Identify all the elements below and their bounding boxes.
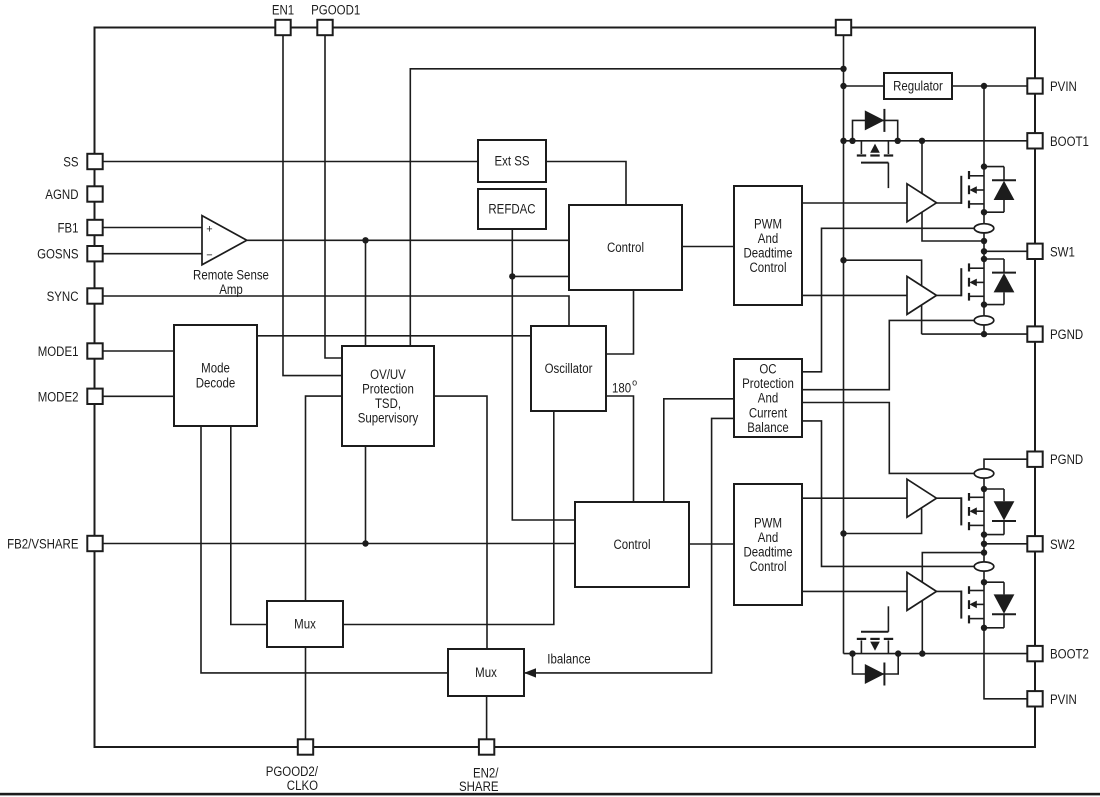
node BOOT1 boot-loop right [895,138,901,144]
pin PGND phase2 [1027,452,1042,467]
block OC Protection And Current Balance [734,359,802,437]
block PWM And Deadtime Control phase2 [734,484,802,605]
block Mux1 [267,601,343,647]
wire SYNC to oscillator [95,296,569,326]
node SW2 at spine [981,541,987,547]
wire Mode Decode to oscillator left [257,335,531,337]
wire BOOT1 down through HS1 driver to SW node [922,141,984,241]
wire top rail from OV/UV to VDD pin column [410,69,843,346]
svg-text:Oscillator: Oscillator [545,361,593,376]
wire MODE2 to Mode Decode [95,395,174,397]
outer IC boundary box [95,28,1036,748]
svg-text:Balance: Balance [747,420,789,435]
svg-text:PVIN: PVIN [1050,692,1077,707]
node amp/OVUV junction [362,237,368,243]
wire REFDAC down to Control1 left [512,229,569,276]
wire spine between SW1 nodes [983,212,985,259]
transistor Q1 body [983,167,985,213]
pin SW1 [1027,244,1042,259]
node BOOT1 boot-loop left [849,138,855,144]
current sense oval LS2 [974,469,994,478]
wire LS1 driver to gate [937,294,962,296]
wire spine HS2 drain to PVIN2 pin [984,628,1027,699]
node BOOT2 boot-loop right [895,650,901,656]
svg-text:PWM: PWM [754,515,782,530]
pin FB2/VSHARE [87,536,102,551]
wire amp output to Control1 [247,239,569,241]
gate driver LS1 [907,276,937,314]
pin PVIN phase2 [1027,691,1042,706]
wire PGOOD1 down to OV/UV [325,33,342,358]
svg-text:EN1: EN1 [272,3,294,18]
bootstrap loop [853,654,899,674]
body diode of Q2 [984,258,1004,260]
wire BP to LS1 driver rail [844,260,922,334]
svg-text:−: − [206,249,212,261]
node regulator/PVIN spine junction [981,83,987,89]
wire Control1 output to PWM1 [682,246,734,248]
node BOOT1 driver branch [919,138,925,144]
svg-text:TSD,: TSD, [375,396,401,411]
wire VDD pin rail down to BOOT2 line [843,33,845,654]
nodes of Q4 [981,625,987,631]
wire FB1 to amp + [95,227,202,229]
wire oscillator 180deg output to Control2 top [606,396,634,502]
node top rail junction [840,66,846,72]
node HS1 driver rail at spine [981,238,987,244]
svg-text:Remote Sense: Remote Sense [193,268,269,283]
nodes of Q1 [981,163,987,169]
svg-text:180: 180 [612,381,631,396]
wire PWM1 output to HS1 driver [802,202,907,204]
block Control phase1 [569,205,682,290]
pin PGOOD2/CLKO [298,739,313,754]
svg-text:OC: OC [759,362,776,377]
wire PWM2 output to HS2 driver [802,590,907,592]
wire GOSNS to amp - [95,253,202,255]
wire PGND2 pin to oval [984,459,1027,469]
svg-text:PWM: PWM [754,216,782,231]
svg-text:BOOT2: BOOT2 [1050,647,1089,662]
wire Ibalance from OC left to Mux2 right [524,418,734,673]
svg-text:And: And [758,530,778,545]
svg-text:CLKO: CLKO [287,778,318,793]
svg-text:SS: SS [63,155,78,170]
svg-text:PGND: PGND [1050,452,1083,467]
block Control phase2 [575,502,689,587]
wire HS2 driver to gate [937,590,962,592]
block OV/UV Protection TSD Supervisory [342,346,434,446]
bootstrap switch FET [860,141,862,154]
wire PWM1 output to LS1 driver [802,294,907,296]
pin VDD unlabeled [836,20,851,35]
pin GOSNS [87,246,102,261]
pin PVIN phase1 [1027,78,1042,93]
svg-text:AGND: AGND [45,187,78,202]
transistor Q4 body [983,582,985,628]
body diode of Q1 [984,166,1004,168]
pin AGND [87,186,102,201]
node LS2 rail at BP [840,530,846,536]
node BOOT2 driver branch [919,650,925,656]
wire BOOT2 line [844,653,1028,655]
block Mode Decode [174,325,257,426]
block PWM And Deadtime Control phase1 [734,186,802,305]
svg-text:And: And [758,231,778,246]
block REFDAC [478,189,546,229]
gate driver HS2 [907,572,937,610]
pin PGND phase1 [1027,326,1042,341]
svg-text:PGOOD2/: PGOOD2/ [266,764,319,779]
wire HS2 rail from BOOT2 up through driver [922,553,984,654]
wire EN1 down to OV/UV [283,33,342,376]
pin EN1 [275,20,290,35]
svg-text:Control: Control [750,260,787,275]
pin FB1 [87,220,102,235]
wire spine oval4 to HS2 source [983,571,985,582]
nodes of Q3 [981,531,987,537]
pin SW2 [1027,536,1042,551]
svg-text:Supervisory: Supervisory [358,411,419,426]
current sense oval LS1 [974,316,994,325]
svg-text:Control: Control [614,537,651,552]
svg-text:OV/UV: OV/UV [370,367,406,382]
svg-text:Mux: Mux [475,665,497,680]
pin PGOOD1 [317,20,332,35]
wire LS2 driver to gate [937,497,962,499]
wire Mux1 bottom to PGOOD2/CLKO pin [305,647,307,747]
pin MODE2 [87,389,102,404]
wire amp output branch down to OV/UV top [365,240,367,346]
wire SW2 line to pin [984,543,1027,545]
wire FB2/VSHARE to Control2 [95,543,575,545]
svg-text:SW2: SW2 [1050,537,1075,552]
svg-text:PGND: PGND [1050,327,1083,342]
node PGND1 at spine [981,331,987,337]
body diode of Q4 [984,627,1004,629]
wire PWM2 output to LS2 driver [802,497,907,499]
wire spine LS1 source to PGND [983,305,985,335]
node BOOT2 boot-loop left [849,650,855,656]
bootstrap loop [853,120,898,140]
wire SW1 line to pin [984,250,1027,252]
page rule bottom [0,793,1100,796]
op-amp U1 Remote Sense Amp [202,216,247,265]
wire PGND1 line to pin [922,333,1027,335]
wire Regulator to PVIN pin [952,85,1027,87]
block Mux2 [448,649,524,696]
block Oscillator [531,326,606,411]
current sense HS1 tap to OC [802,228,974,371]
pin SYNC [87,288,102,303]
svg-text:PGOOD1: PGOOD1 [311,3,360,18]
wire OV/UV left to Mux1 top [306,396,343,601]
wire BOOT1 line [844,140,1028,142]
pin MODE1 [87,343,102,358]
body diode of Q3 [984,534,1004,536]
node regulator line junction left [840,83,846,89]
wire MODE1 to Mode Decode [95,350,174,352]
current sense oval HS2 [974,562,994,571]
wire REFDAC rail down to Control2 left [512,276,575,520]
wire spine LS2 drain to oval4 [983,535,985,562]
svg-text:REFDAC: REFDAC [488,202,535,217]
wire SS pin to Ext SS [95,161,478,163]
current sense HS2 tap from OC [802,421,975,567]
transistor Q2 body [983,259,985,305]
block Regulator [884,73,952,99]
current sense LS2 tap from OC [802,403,975,474]
svg-text:Deadtime: Deadtime [743,246,792,261]
current sense oval HS1 [974,224,994,233]
pin EN2/SHARE [479,739,494,754]
pin SS [87,154,102,169]
svg-text:SW1: SW1 [1050,244,1075,259]
wire spine oval3 to LS2 source [983,478,985,489]
wire BP to LS2 driver rail [844,509,922,534]
pin BOOT2 [1027,646,1042,661]
transistor Q3 body [983,489,985,535]
svg-text:Protection: Protection [742,376,794,391]
wire Mode Decode bottom to Mux1 left [231,426,267,625]
wire Mux2 bottom to EN2/SHARE pin [486,696,488,747]
wire HS1 driver to gate [937,202,962,204]
nodes of Q2 [981,256,987,262]
bootstrap diode [865,110,885,130]
wire OV/UV bottom to FB2 line [365,446,367,544]
svg-text:Ibalance: Ibalance [547,652,590,667]
svg-text:SHARE: SHARE [459,779,499,794]
svg-text:Current: Current [749,405,788,420]
bootstrap switch FET [860,640,862,653]
svg-text:Ext SS: Ext SS [494,154,529,169]
node REFDAC branch [509,273,515,279]
node BOOT1 at BP rail [840,138,846,144]
svg-text:Control: Control [750,559,787,574]
svg-text:Amp: Amp [219,282,243,297]
wire Control1 bottom to oscillator right [606,290,634,354]
svg-text:o: o [632,378,637,388]
wire oscillator bottom to Mux1 right [343,411,554,625]
pin BOOT1 [1027,133,1042,148]
wire Mode Decode bottom to Mux2 left [201,426,448,673]
svg-text:Control: Control [607,240,644,255]
svg-text:Mode: Mode [201,361,230,376]
bootstrap diode [865,664,885,684]
svg-text:PVIN: PVIN [1050,79,1077,94]
svg-text:FB2/VSHARE: FB2/VSHARE [7,537,78,552]
wire BP to Regulator [844,85,885,87]
svg-text:FB1: FB1 [58,221,79,236]
svg-text:And: And [758,391,778,406]
wire Ext SS output to Control1 top [546,162,626,206]
svg-text:Regulator: Regulator [893,79,943,94]
wire Control2 output to PWM2 [689,543,734,545]
wire OC left to Control2 top [664,399,734,502]
current sense LS1 tap to OC [802,320,974,389]
svg-text:SYNC: SYNC [47,289,79,304]
wire OV/UV right to Mux2 top [434,396,487,649]
svg-text:+: + [206,224,212,236]
node HS2 rail at spine [981,549,987,555]
svg-text:Mux: Mux [294,617,316,632]
node LS1 rail at BP [840,257,846,263]
svg-text:GOSNS: GOSNS [37,247,78,262]
svg-text:Protection: Protection [362,381,414,396]
wire spine PVIN down to HS1 drain [983,86,985,167]
block Ext SS [478,140,546,182]
gate driver HS1 [907,184,937,222]
svg-text:BOOT1: BOOT1 [1050,134,1089,149]
svg-text:Deadtime: Deadtime [743,545,792,560]
node SW1 at spine [981,248,987,254]
svg-text:MODE1: MODE1 [38,344,79,359]
arrowhead Ibalance into Mux2 [524,668,536,677]
svg-text:MODE2: MODE2 [38,389,79,404]
svg-text:Decode: Decode [196,376,236,391]
gate driver LS2 [907,479,937,517]
node OV/UV to FB2 junction [362,540,368,546]
